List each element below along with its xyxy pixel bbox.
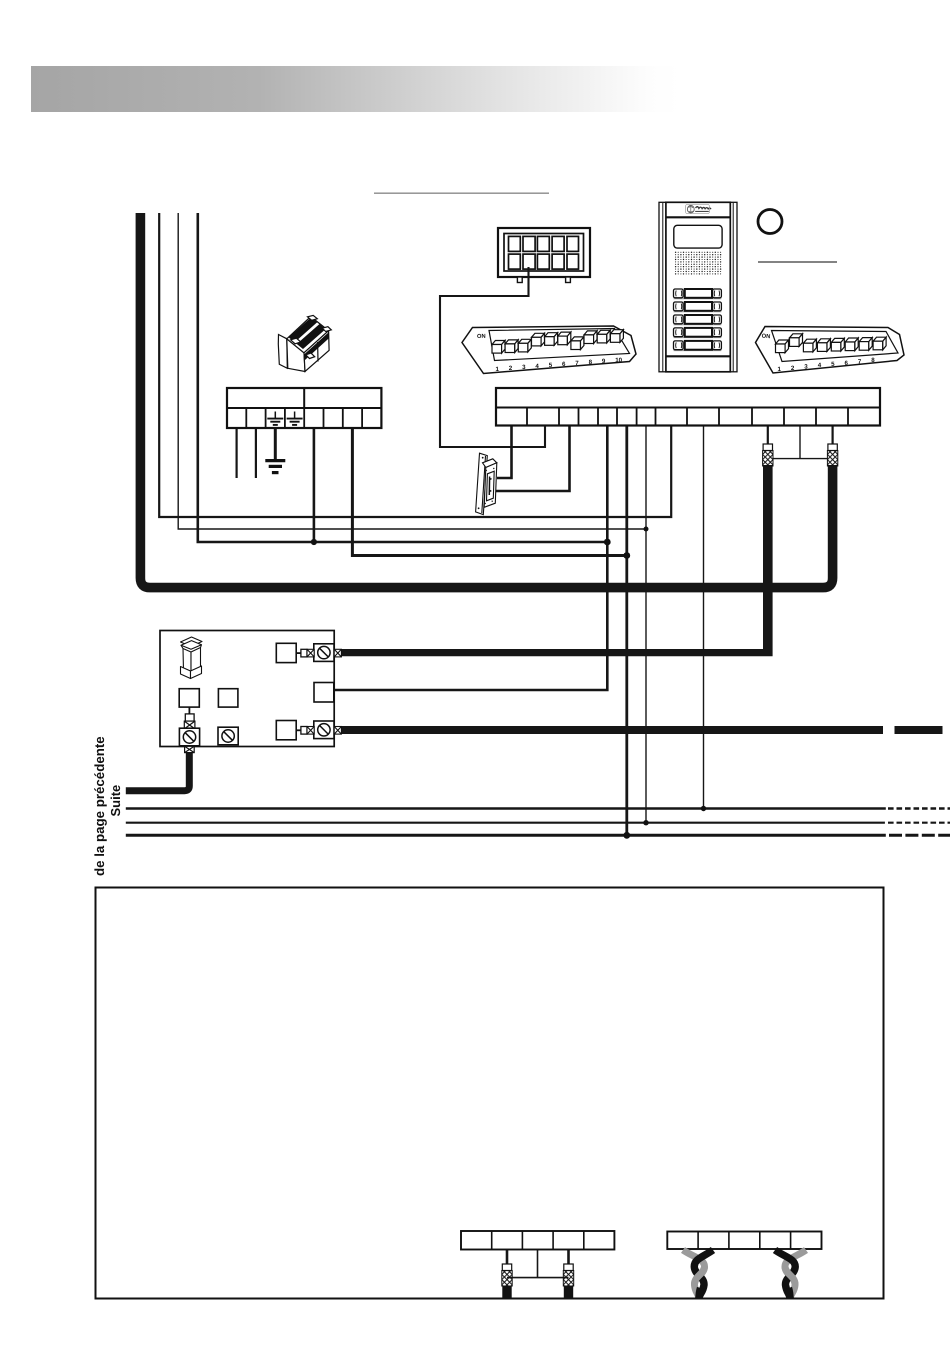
svg-text:3: 3	[804, 364, 808, 371]
svg-text:4: 4	[818, 362, 822, 369]
svg-text:2: 2	[791, 365, 795, 372]
svg-text:6: 6	[845, 360, 849, 367]
svg-text:2: 2	[509, 365, 513, 372]
svg-text:5: 5	[831, 361, 835, 368]
svg-text:6: 6	[562, 361, 566, 368]
svg-text:ON: ON	[477, 333, 486, 340]
svg-text:7: 7	[858, 359, 862, 366]
svg-text:1: 1	[496, 366, 500, 373]
svg-text:3: 3	[522, 364, 526, 371]
svg-text:7: 7	[575, 360, 579, 367]
svg-text:de la page précédente: de la page précédente	[92, 736, 107, 876]
svg-text:9: 9	[602, 358, 606, 365]
svg-text:1: 1	[778, 366, 782, 373]
svg-text:8: 8	[589, 359, 593, 366]
svg-text:ON: ON	[761, 332, 770, 340]
svg-text:Suite: Suite	[108, 785, 123, 817]
svg-text:4: 4	[535, 363, 539, 370]
svg-text:8: 8	[871, 357, 875, 364]
svg-text:10: 10	[615, 357, 622, 364]
svg-text:5: 5	[549, 362, 553, 369]
